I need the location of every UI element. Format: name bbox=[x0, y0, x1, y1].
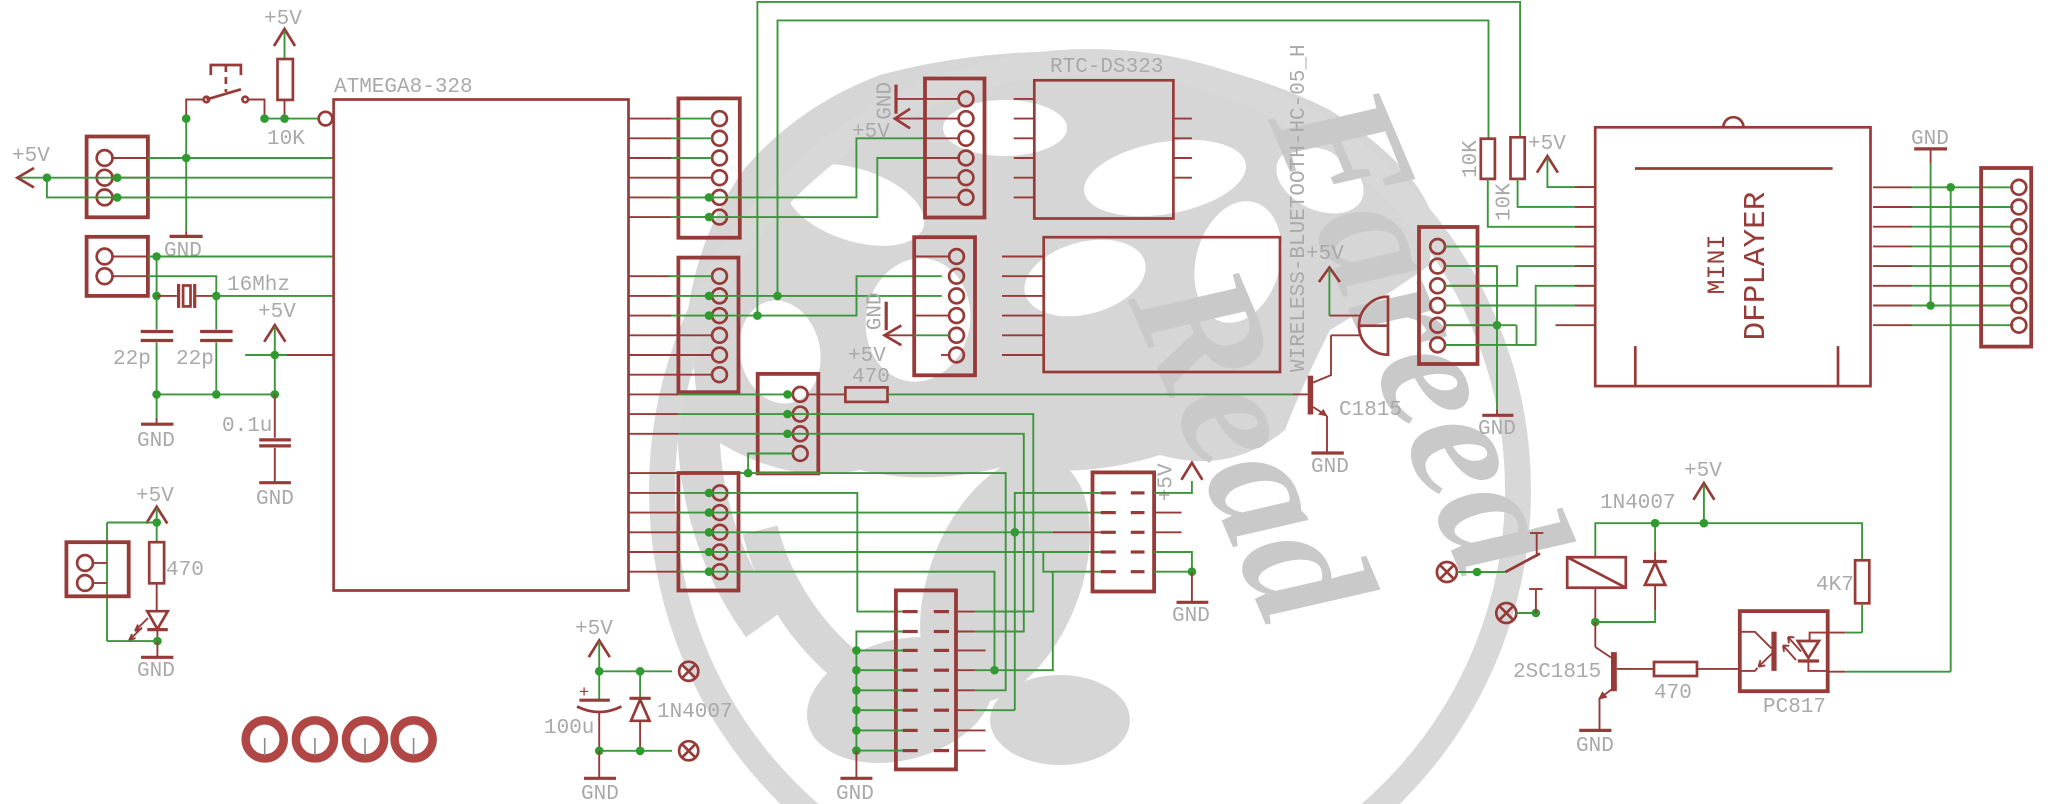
crystal 16Mhz bbox=[157, 274, 290, 308]
wire bottom rail bbox=[157, 393, 275, 395]
DFPlayer left pin stubs bbox=[1575, 186, 1595, 188]
inversion bubble RESET pin bbox=[319, 112, 333, 126]
pushbutton switch S1 bbox=[186, 65, 264, 119]
wire 2x8 right stubs bbox=[956, 612, 1054, 751]
wires DFPlayer right to header bbox=[1912, 187, 2014, 325]
+5V symbol rotated left (BT header) bbox=[848, 325, 949, 368]
svg-text:GND: GND bbox=[1172, 605, 1210, 628]
resistor 10K (R1 inner) bbox=[1460, 139, 1495, 179]
svg-text:GND: GND bbox=[1478, 418, 1516, 441]
wire 10pin row5 down to 2x8 row4 bbox=[1052, 572, 1054, 671]
svg-text:GND: GND bbox=[137, 430, 175, 453]
mounting hole H1 bbox=[246, 720, 284, 758]
+5V symbol (supply cap) bbox=[575, 618, 613, 700]
wire JP2 row3 to BT header row2 bbox=[671, 276, 942, 315]
lamp crossed circle bottom bbox=[679, 741, 698, 760]
header JP3 (4 pin) bbox=[758, 374, 819, 474]
resistor 470 (base) bbox=[808, 366, 890, 402]
ground symbol rotated (BT header) bbox=[865, 292, 888, 330]
svg-text:WIRELESS-BLUETOOTH-HC-05_H: WIRELESS-BLUETOOTH-HC-05_H bbox=[1288, 44, 1311, 372]
header JP1 (6 pin) right of IC bbox=[678, 98, 739, 237]
+5V symbol (relay) bbox=[1684, 460, 1722, 523]
wire DFP header row1 to pin4 bbox=[1445, 245, 1595, 247]
svg-text:DFPLAYER: DFPLAYER bbox=[1739, 192, 1774, 341]
wire 10pin rows 4,5 GND bbox=[1154, 552, 1192, 572]
resistor 10K (pull-up) bbox=[267, 59, 305, 151]
svg-text:10K: 10K bbox=[1494, 183, 1517, 221]
pin stubs IC to JP4 bbox=[629, 493, 679, 572]
header JP-right (8 pin) bbox=[1981, 168, 2031, 347]
connector J3 (2 pin) bbox=[66, 542, 128, 596]
pin stubs IC to JP2 bbox=[629, 276, 713, 375]
wire JP3 row4 to row 473 bbox=[748, 454, 793, 474]
svg-text:22p: 22p bbox=[113, 348, 151, 371]
svg-text:1N4007: 1N4007 bbox=[1600, 492, 1676, 515]
IC ATMEGA8-328 bbox=[334, 76, 629, 591]
wire bottom rail bbox=[599, 750, 672, 752]
wire +5V rail bbox=[1595, 523, 1862, 560]
wire PC817 emitter to DFPlayer net bbox=[1828, 671, 1846, 673]
watermark logo circle bbox=[662, 51, 1607, 804]
ground symbol rotated (RTC header) bbox=[875, 82, 926, 120]
svg-text:+5V: +5V bbox=[575, 618, 613, 641]
svg-text:2SC1815: 2SC1815 bbox=[1513, 661, 1601, 684]
wire J1 row1 to IC bbox=[148, 157, 334, 159]
ground symbol (DFP header) bbox=[1478, 415, 1516, 441]
+5V symbol (DFPlayer) bbox=[1528, 133, 1595, 187]
svg-text:0.1u: 0.1u bbox=[222, 415, 272, 438]
svg-text:GND: GND bbox=[1576, 735, 1614, 758]
mounting hole H4 bbox=[395, 720, 433, 758]
ground pin bbox=[185, 232, 187, 237]
header JP-DFP (6 pin) bbox=[1419, 227, 1478, 364]
wire R1 bottom to DFP RX bbox=[1488, 179, 1595, 227]
wire 10pin row1 +5V net bbox=[1015, 493, 1101, 710]
wire 10pin row3 stub bbox=[1053, 531, 1101, 533]
wire crystal to IC bbox=[216, 295, 333, 297]
wire 2x8 left GND chain bbox=[852, 632, 902, 778]
wire DFP header row3 crossover up to pin5 bbox=[1445, 266, 1595, 286]
diode 1N4007 (protection) bbox=[630, 671, 733, 751]
wire DFP header row4 to pin7 bbox=[1445, 305, 1595, 307]
wire PC817 collector to 4K7 bbox=[1828, 632, 1846, 634]
svg-text:+5V: +5V bbox=[1156, 463, 1179, 501]
transistor 2SC1815 bbox=[1513, 622, 1617, 729]
wire J2 row2 to crystal right bbox=[148, 276, 216, 296]
svg-text:GND: GND bbox=[836, 783, 874, 804]
pin stubs IC to JP1 bbox=[629, 119, 713, 218]
wire long net to PC817 bbox=[1950, 187, 1952, 671]
wire JP2 row2 to BT header row3 bbox=[671, 295, 942, 297]
pin stubs IC rows to JP3 area bbox=[629, 394, 679, 473]
ground symbol bbox=[137, 424, 175, 453]
transistor C1815 bbox=[1293, 335, 1402, 451]
svg-text:1N4007: 1N4007 bbox=[657, 701, 733, 724]
connector J1 (3 pin) bbox=[87, 137, 148, 218]
capacitor 22p (left) bbox=[113, 332, 173, 395]
wire long net RX to DFPlayer (inner loop) bbox=[778, 20, 1489, 296]
wire 10pin row4 left dash bbox=[1043, 551, 1100, 553]
svg-text:GND: GND bbox=[1311, 456, 1349, 479]
mounting hole H2 bbox=[296, 720, 334, 758]
ground symbol bbox=[137, 657, 175, 683]
+5V symbol top left bbox=[264, 8, 302, 60]
header 2x8 box bbox=[896, 590, 956, 769]
wire DFP header row2 crossover down bbox=[1445, 266, 1497, 410]
resistor 4K7 bbox=[1816, 560, 1869, 632]
wire crystal right vertical bbox=[215, 296, 217, 330]
svg-text:GND: GND bbox=[865, 292, 888, 330]
ground symbol (2x8) bbox=[836, 778, 874, 804]
svg-text:+5V: +5V bbox=[1684, 460, 1722, 483]
wire JP4 row1 to 2x8 row1 bbox=[678, 493, 902, 612]
header JP-BT (6 pin) bbox=[914, 237, 975, 375]
svg-text:100u: 100u bbox=[544, 717, 594, 740]
+5V symbol (AVCC) bbox=[258, 301, 296, 394]
svg-text:22p: 22p bbox=[176, 348, 214, 371]
svg-text:GND: GND bbox=[875, 82, 898, 120]
ground symbol (2SC1815) bbox=[1576, 730, 1614, 758]
svg-text:+5V: +5V bbox=[1528, 133, 1566, 156]
svg-text:+5V: +5V bbox=[848, 345, 886, 368]
header 10 pin (2x5) box bbox=[1093, 472, 1155, 591]
lamp crossed circle (switch 2) bbox=[1496, 603, 1516, 623]
svg-text:470: 470 bbox=[1654, 682, 1692, 705]
+5V symbol rotated (10pin) bbox=[1154, 463, 1202, 501]
ground symbol (10pin) bbox=[1172, 602, 1210, 628]
wire 470 to transistor base bbox=[888, 393, 1294, 395]
ground symbol flipped (DFPlayer right) bbox=[1911, 128, 1949, 310]
IC RTC-DS323 bbox=[1014, 56, 1192, 219]
svg-text:10K: 10K bbox=[267, 128, 305, 151]
header JP2 (6 pin) bbox=[678, 258, 738, 393]
wire DFP header row6 bbox=[1445, 344, 1536, 346]
wire JP3 row2 long bbox=[678, 414, 1033, 611]
svg-text:16Mhz: 16Mhz bbox=[227, 274, 290, 297]
resistor 10K (R2 outer) bbox=[1494, 137, 1525, 221]
wire R2 bottom to DFP BUSY bbox=[1518, 179, 1596, 207]
wire base net row (470) bbox=[678, 393, 792, 395]
wire switch to GND vertical bbox=[185, 119, 187, 232]
wire AVCC row bbox=[245, 354, 287, 356]
wire arrow to J1 rows bbox=[20, 177, 334, 179]
wire JP1 row6 to RTC header row4 bbox=[671, 158, 925, 217]
relay K1 bbox=[1567, 557, 1626, 622]
wire J2 row1 to IC bbox=[148, 256, 334, 258]
svg-text:+5V: +5V bbox=[136, 485, 174, 508]
diode 1N4007 (flyback) bbox=[1595, 492, 1675, 622]
speaker +5V symbol bbox=[1306, 243, 1344, 316]
ground symbol (C1815) bbox=[1311, 453, 1349, 479]
capacitor 22p (right) bbox=[176, 332, 233, 395]
svg-text:RTC-DS323: RTC-DS323 bbox=[1050, 56, 1163, 79]
pin8 stub bbox=[1556, 324, 1596, 326]
optocoupler PC817 bbox=[1740, 611, 1828, 719]
wire JP3 row3 long bbox=[678, 434, 1023, 632]
wire JP4 row5 long bbox=[678, 572, 994, 671]
wire JP4 row3 to 10pin row3 bbox=[678, 531, 1052, 533]
+5V symbol rotated left (RTC header) bbox=[852, 109, 925, 144]
switch S3 pin bbox=[1516, 589, 1542, 617]
node RESET junction dots bbox=[182, 114, 191, 123]
svg-text:+5V: +5V bbox=[1306, 243, 1344, 266]
+5V label left arrow bbox=[12, 145, 50, 188]
ground symbol bbox=[256, 483, 294, 511]
capacitor 100u polarized bbox=[544, 684, 621, 751]
LED bbox=[129, 611, 168, 641]
svg-text:+5V: +5V bbox=[258, 301, 296, 324]
header JP4 (5 pin) bbox=[678, 473, 738, 591]
resistor 470 bbox=[149, 542, 204, 611]
wire pin6 jog to lamp row bbox=[1517, 286, 1596, 345]
IC wireless bluetooth HC-05 bbox=[1002, 44, 1311, 372]
wire row 473 long bbox=[678, 473, 1005, 690]
10pin right stubs bbox=[1154, 513, 1181, 533]
wire JP4 row2 to 10pin row2 bbox=[678, 512, 1100, 514]
svg-text:GND: GND bbox=[164, 240, 202, 263]
switch S2 bbox=[1457, 533, 1543, 576]
wire +5V rail to lamp bbox=[599, 670, 672, 672]
lamp crossed circle (switch 1) bbox=[1437, 562, 1457, 582]
svg-text:10K: 10K bbox=[1460, 140, 1483, 178]
svg-text:470: 470 bbox=[852, 366, 890, 389]
connector J2 (2 pin) bbox=[87, 237, 148, 296]
ground symbol (100u) bbox=[581, 778, 619, 804]
wire to connector bbox=[107, 522, 157, 524]
wire rail to ground bbox=[156, 394, 158, 418]
ground symbol bbox=[164, 236, 203, 263]
svg-text:GND: GND bbox=[137, 660, 175, 683]
resistor 470 (opto) bbox=[1617, 662, 1740, 705]
svg-text:470: 470 bbox=[166, 559, 204, 582]
svg-text:PC817: PC817 bbox=[1763, 696, 1826, 719]
lamp crossed circle top bbox=[679, 662, 698, 681]
svg-text:MINI: MINI bbox=[1703, 234, 1732, 294]
wire long net TX to DFPlayer (outer loop) bbox=[757, 2, 1520, 316]
mounting hole H3 bbox=[346, 720, 384, 758]
wire JP4 row4 to 10pin row5 bbox=[678, 552, 1100, 572]
DFPlayer right pin stubs bbox=[1873, 187, 1912, 325]
svg-text:4K7: 4K7 bbox=[1816, 574, 1854, 597]
capacitor 0.1u bbox=[222, 394, 291, 481]
svg-text:GND: GND bbox=[256, 488, 294, 511]
svg-text:+5V: +5V bbox=[264, 8, 302, 31]
+5V symbol bbox=[136, 485, 174, 542]
IC MINI DFPLAYER bbox=[1595, 117, 1870, 386]
svg-text:+5V: +5V bbox=[852, 121, 890, 144]
svg-text:C1815: C1815 bbox=[1339, 399, 1402, 422]
wire JP1 row5 to RTC header row3 bbox=[671, 138, 925, 197]
svg-text:+5V: +5V bbox=[12, 145, 50, 168]
speaker LS1 bbox=[1329, 297, 1388, 355]
wire LED cathode bbox=[107, 640, 157, 642]
wire crystal net vertical left bbox=[156, 257, 158, 330]
svg-text:GND: GND bbox=[581, 783, 619, 804]
wire DFP header row5 bbox=[1445, 324, 1517, 326]
svg-text:ATMEGA8-328: ATMEGA8-328 bbox=[334, 76, 473, 99]
header JP-RTC (6 pin) bbox=[925, 79, 985, 218]
wire RESET to IC bbox=[265, 118, 319, 120]
